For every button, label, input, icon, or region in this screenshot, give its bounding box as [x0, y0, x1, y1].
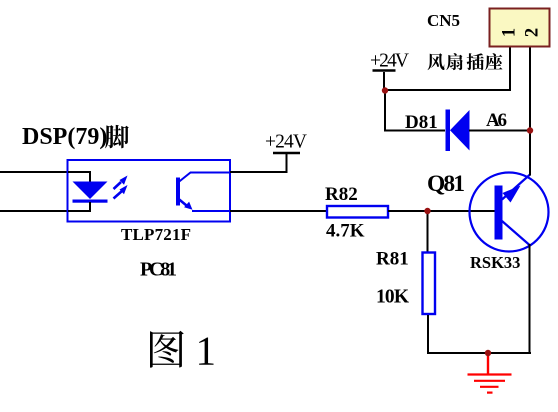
wire — [230, 154, 287, 172]
wire collector up — [529, 47, 531, 176]
svg-text:10K: 10K — [376, 287, 410, 308]
svg-text:R81: R81 — [376, 249, 409, 270]
node junction base — [424, 208, 430, 214]
svg-text:1: 1 — [500, 28, 520, 37]
wire — [427, 211, 429, 252]
label fan socket fengshan chazuo — [428, 53, 503, 70]
resistor R82 — [327, 206, 388, 218]
light arrow 2 — [114, 185, 128, 199]
wire — [388, 210, 496, 212]
wire emitter down — [529, 244, 531, 354]
connector CN5 body — [490, 9, 550, 47]
svg-text:PC81: PC81 — [140, 259, 177, 281]
ground — [468, 354, 512, 393]
wire — [0, 210, 68, 212]
svg-text:D81: D81 — [405, 112, 438, 133]
svg-text:Q81: Q81 — [427, 171, 465, 197]
wire — [469, 130, 530, 132]
svg-text:DSP(79): DSP(79) — [22, 124, 107, 150]
diode D81 — [446, 110, 470, 152]
resistor R81 — [423, 253, 436, 315]
transistor Q81 internals — [495, 175, 531, 246]
light arrow 1 — [114, 176, 128, 190]
svg-text:+24V: +24V — [265, 132, 307, 153]
power +24V left — [273, 152, 300, 155]
wire — [383, 72, 385, 91]
wire — [0, 171, 68, 173]
wire — [384, 89, 510, 91]
svg-text:1: 1 — [196, 328, 217, 374]
transistor phototransistor of PC81 — [176, 173, 229, 212]
power +24V top — [373, 69, 396, 72]
svg-text:TLP721F: TLP721F — [121, 225, 191, 244]
wire — [230, 210, 327, 212]
svg-text:4.7K: 4.7K — [326, 221, 365, 242]
optocoupler PC81 body — [68, 160, 231, 222]
wire — [427, 315, 429, 354]
svg-text:A6: A6 — [486, 110, 507, 131]
wire — [384, 130, 445, 132]
node junction ground — [485, 350, 491, 356]
svg-text:+24V: +24V — [370, 51, 409, 72]
wire bottom — [427, 352, 531, 354]
transistor Q2 : Q81 circle — [470, 173, 549, 252]
svg-text:CN5: CN5 — [427, 11, 460, 30]
svg-text:RSK33: RSK33 — [470, 253, 520, 272]
wire — [384, 90, 386, 132]
caption figure 1 — [150, 328, 216, 374]
wire pin1 — [509, 47, 511, 91]
svg-text:R82: R82 — [325, 184, 358, 205]
diode LED of PC81 — [68, 172, 108, 211]
node A6 junction — [527, 127, 533, 133]
svg-text:2: 2 — [523, 28, 543, 37]
node junction +24V — [382, 87, 388, 93]
label DSP(79)jiao — [22, 124, 129, 150]
